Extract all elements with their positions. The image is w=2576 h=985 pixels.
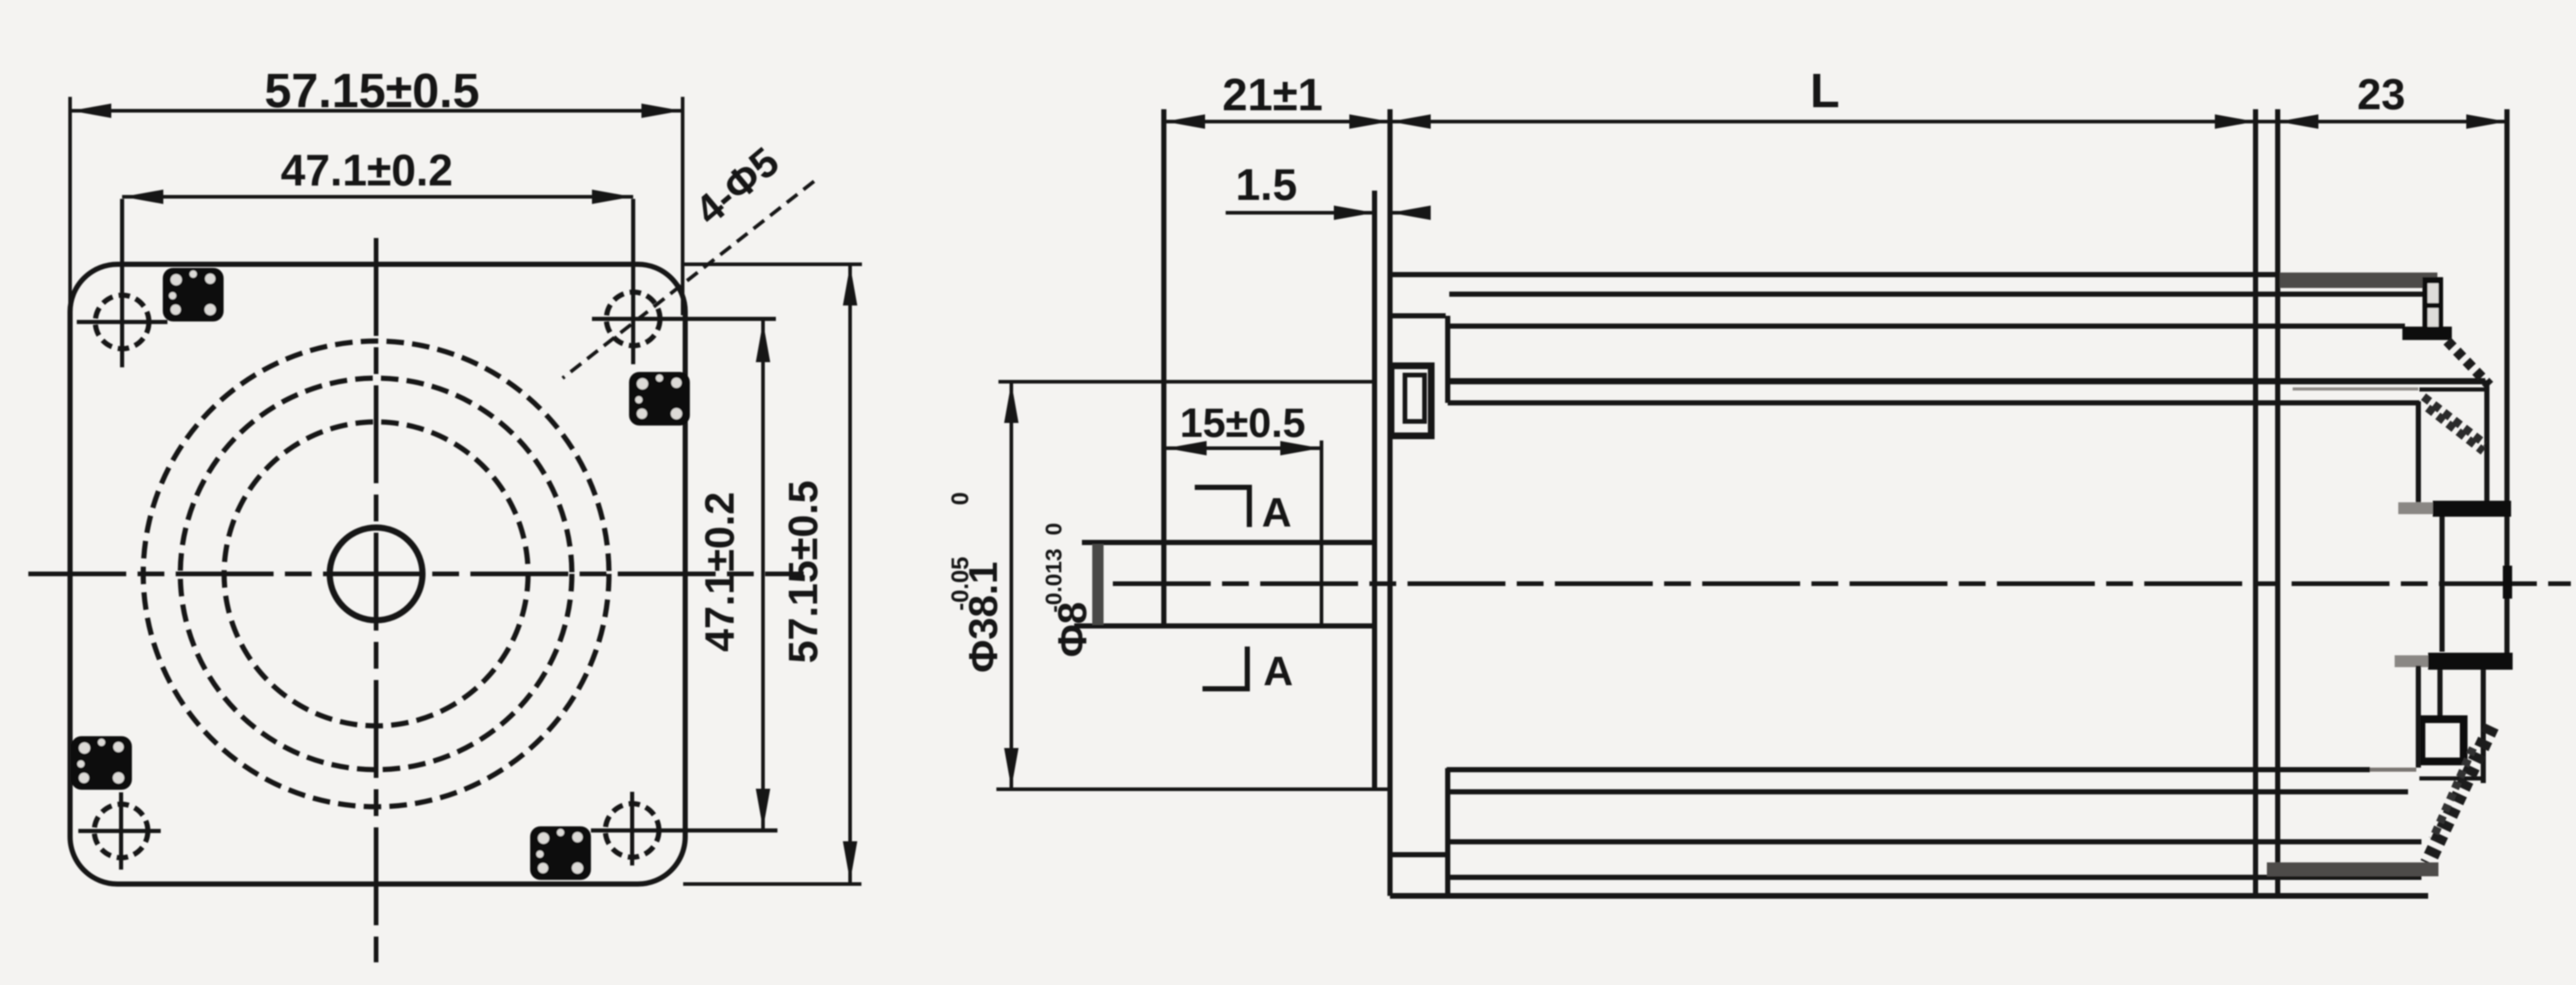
svg-text:47.1±0.2: 47.1±0.2 xyxy=(281,146,453,195)
svg-text:47.1±0.2: 47.1±0.2 xyxy=(697,492,742,652)
svg-text:0: 0 xyxy=(1041,523,1066,535)
svg-text:L: L xyxy=(1810,63,1839,117)
svg-text:57.15±0.5: 57.15±0.5 xyxy=(780,480,826,663)
svg-text:A: A xyxy=(1262,489,1292,535)
svg-text:23: 23 xyxy=(2357,70,2405,118)
svg-text:1.5: 1.5 xyxy=(1235,160,1297,210)
svg-text:0: 0 xyxy=(946,492,973,505)
svg-text:-0.013: -0.013 xyxy=(1041,549,1066,613)
svg-text:57.15±0.5: 57.15±0.5 xyxy=(264,63,480,117)
svg-text:A: A xyxy=(1263,648,1293,694)
svg-text:-0.05: -0.05 xyxy=(946,557,973,611)
svg-text:15±0.5: 15±0.5 xyxy=(1180,400,1306,446)
svg-text:21±1: 21±1 xyxy=(1222,69,1323,120)
